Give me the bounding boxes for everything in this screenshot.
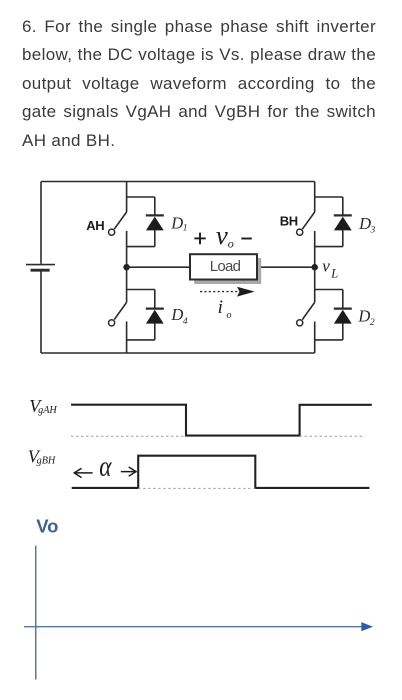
svg-text:v: v — [322, 257, 330, 276]
current io dashed arrow — [200, 287, 255, 297]
diode D4 — [127, 290, 164, 340]
svg-text:i: i — [218, 297, 223, 318]
wire D1 top branch — [127, 196, 155, 198]
svg-text:VgBH: VgBH — [28, 446, 56, 466]
svg-text:BH: BH — [280, 214, 298, 229]
VgAH gate waveform — [71, 405, 372, 436]
svg-text:D4: D4 — [170, 305, 187, 327]
vo minus sign — [241, 238, 251, 240]
switch BH contact circle — [297, 229, 303, 235]
Vo horizontal axis — [24, 626, 362, 628]
wire load to node vL — [257, 266, 315, 268]
switch BL contact circle — [297, 320, 303, 326]
svg-text:D2: D2 — [357, 306, 374, 328]
switch AL contact circle — [109, 320, 115, 326]
node vL junction dot — [312, 264, 318, 270]
switch AH contact circle — [109, 229, 115, 235]
battery Vs short plate — [31, 269, 50, 272]
wire left rail upper — [40, 182, 42, 264]
question text — [22, 13, 376, 155]
wire switch AH lower stub — [126, 231, 128, 267]
VgBH zero dashed baseline — [138, 487, 255, 489]
svg-text:L: L — [330, 267, 338, 281]
vo plus sign — [194, 233, 205, 245]
wire switch AL lower stub — [126, 322, 128, 354]
wire switch BL lower stub — [314, 322, 316, 354]
wire top rail — [41, 181, 315, 183]
wire D4 top branch — [127, 289, 155, 291]
diode D2 — [315, 290, 352, 340]
alpha right arrow — [122, 467, 137, 476]
diode D1 — [127, 197, 164, 247]
wire leg B mid stub — [314, 267, 316, 302]
svg-text:AH: AH — [86, 218, 104, 233]
Vo vertical axis — [35, 546, 37, 680]
VgBH gate waveform — [72, 456, 370, 488]
diode D3 — [315, 197, 352, 247]
node A junction dot — [123, 264, 129, 270]
svg-text:α: α — [99, 450, 112, 482]
wire leg A upper stub — [126, 182, 128, 213]
svg-text:Vo: Vo — [36, 515, 58, 536]
switch AL blade — [114, 302, 126, 319]
alpha left arrow — [74, 469, 92, 478]
svg-text:v: v — [216, 220, 228, 250]
wire leg B upper stub — [314, 182, 316, 213]
wire bottom rail — [41, 352, 315, 354]
Vo axis arrowhead — [361, 622, 373, 631]
svg-text:o: o — [227, 310, 232, 321]
VgAH zero dashed baseline — [71, 435, 186, 437]
svg-text:VgAH: VgAH — [29, 396, 57, 416]
svg-text:D1: D1 — [170, 213, 187, 233]
switch AH blade — [114, 212, 126, 229]
wire switch BH lower stub — [314, 231, 316, 267]
wire left rail lower — [40, 270, 42, 353]
wire D2 top branch — [315, 289, 343, 291]
battery Vs long plate — [26, 264, 55, 266]
load box shadow — [194, 258, 261, 284]
svg-text:D3: D3 — [358, 214, 375, 236]
switch BL blade — [302, 302, 314, 319]
svg-text:Load: Load — [210, 258, 241, 275]
svg-text:o: o — [228, 236, 234, 250]
wire D3 top branch — [315, 196, 343, 198]
wire leg A mid stub — [126, 267, 128, 302]
switch BH blade — [302, 212, 314, 229]
wire node A to load — [127, 266, 190, 268]
load box — [190, 254, 257, 279]
